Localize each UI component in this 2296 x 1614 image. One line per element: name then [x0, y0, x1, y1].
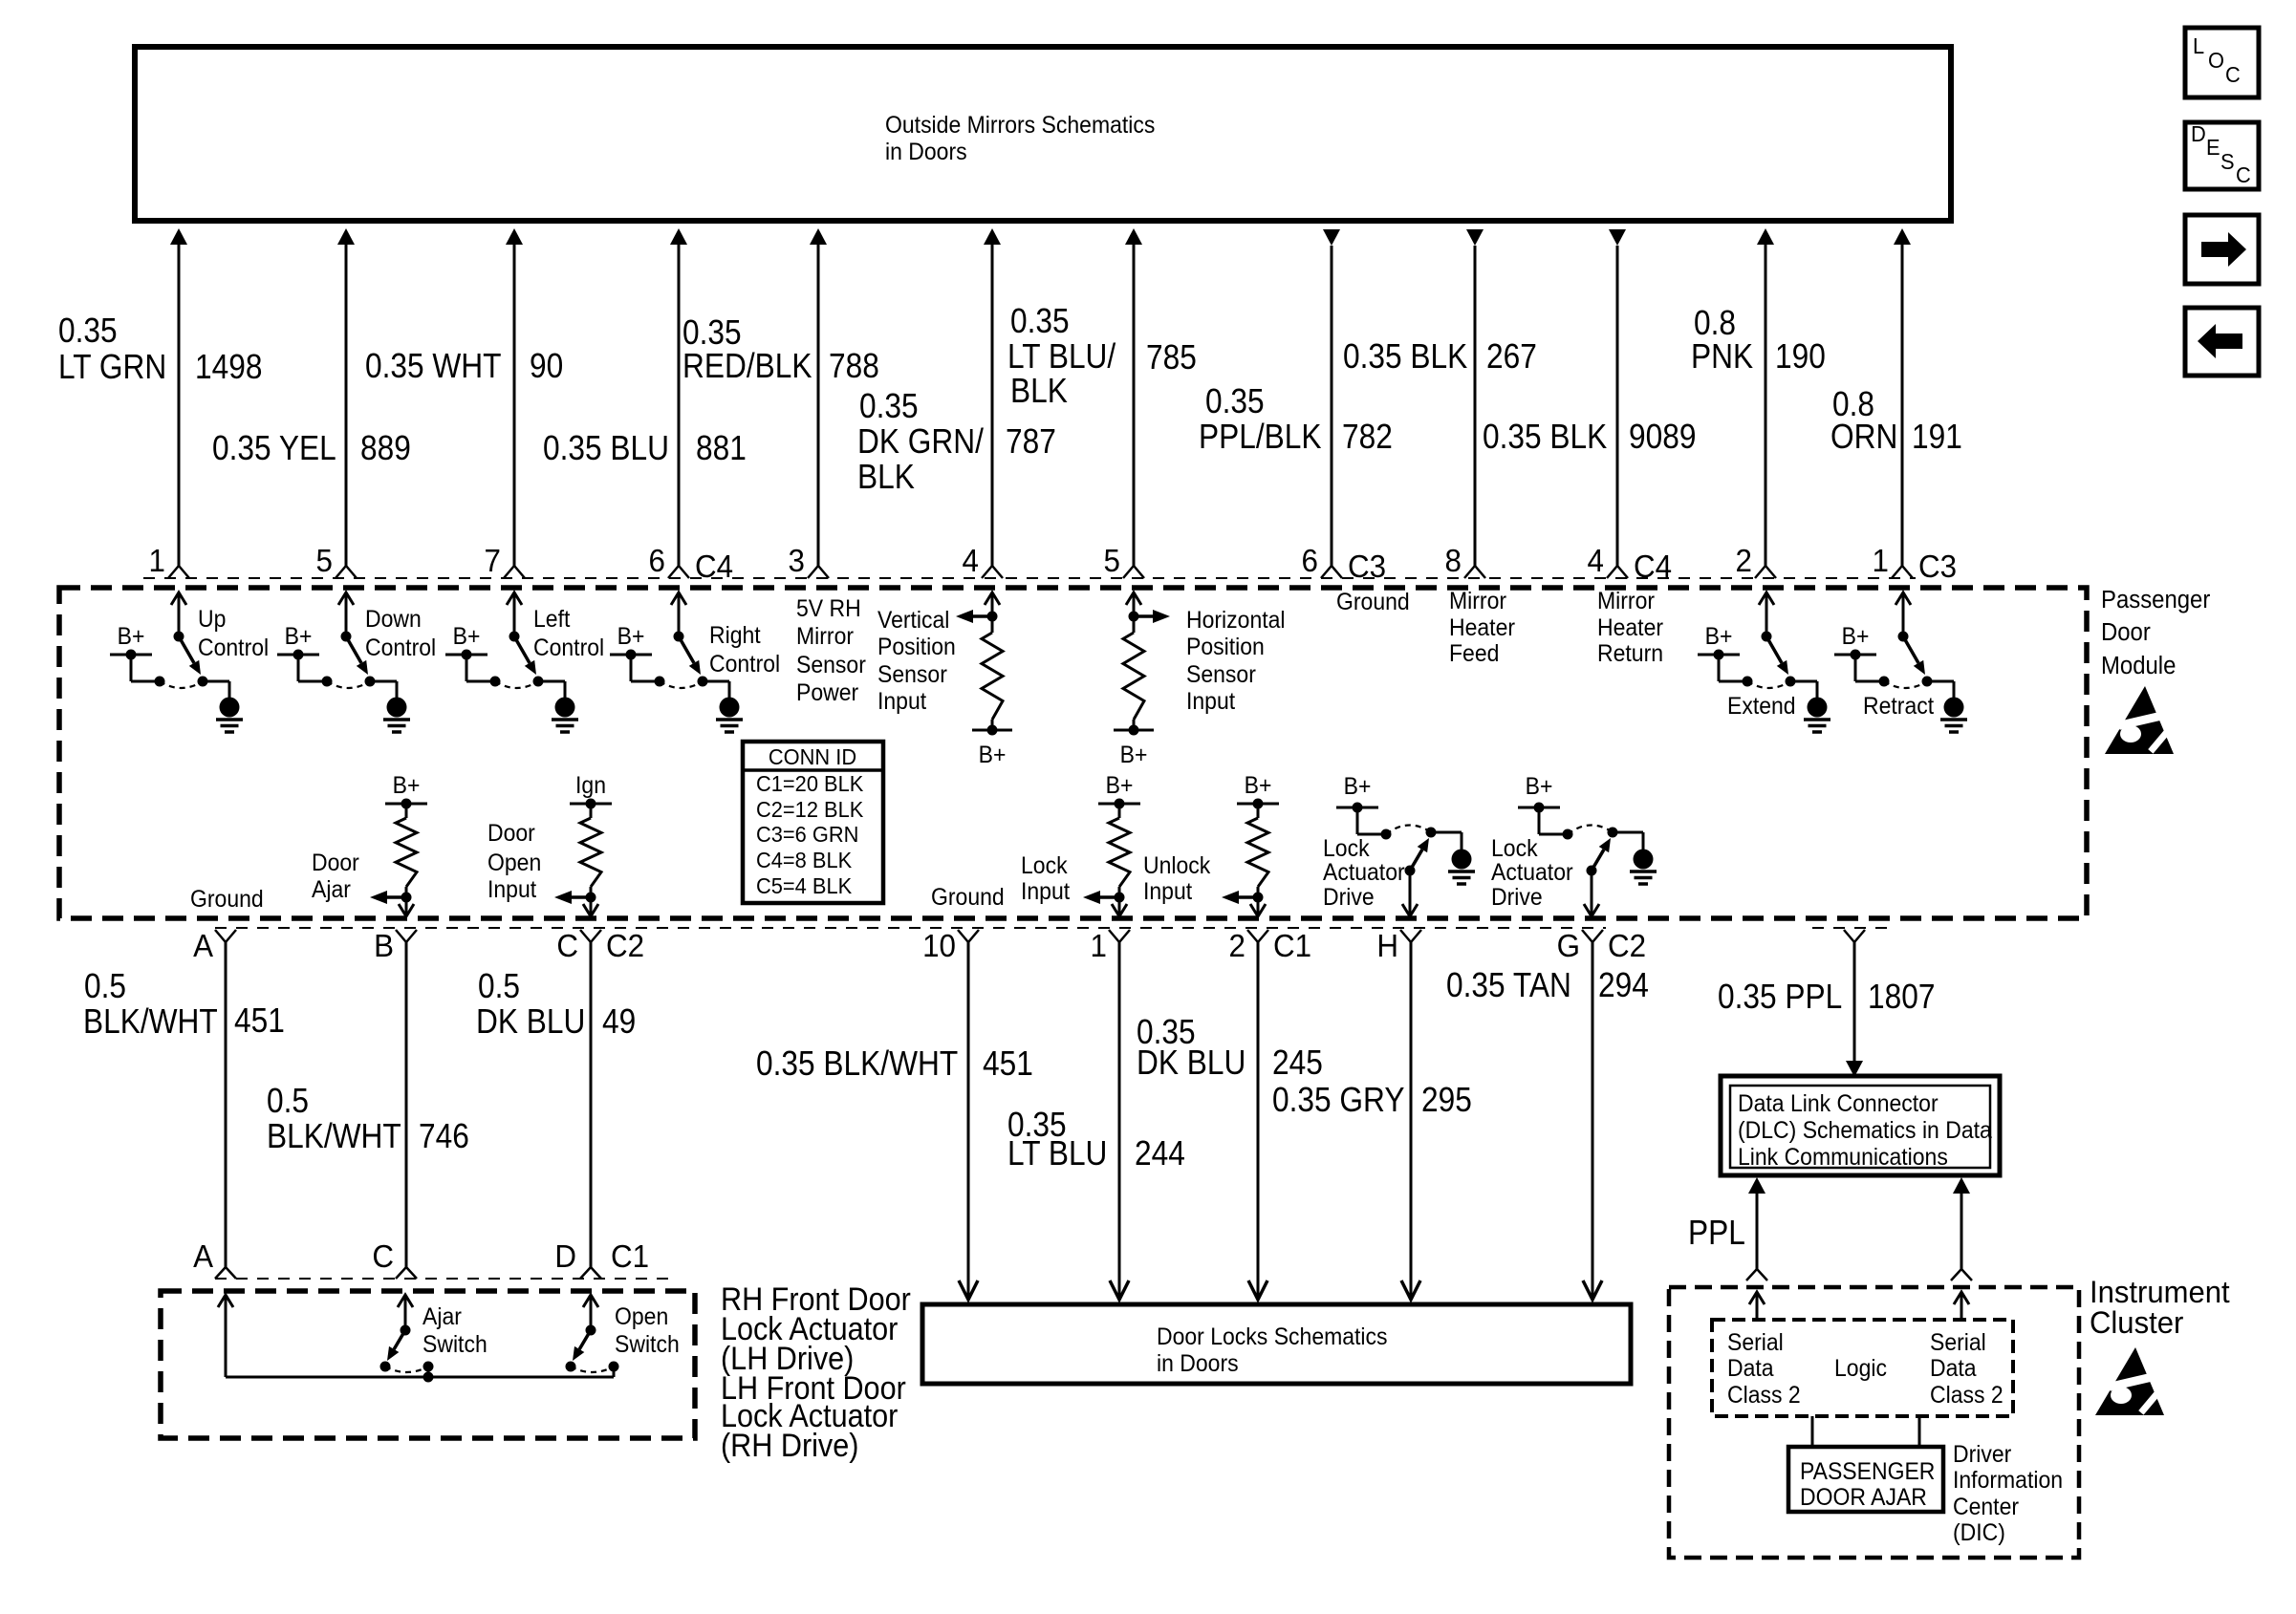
svg-text:0.5: 0.5 [84, 967, 126, 1005]
svg-text:1: 1 [149, 543, 165, 578]
label 0.35 GRY 295 [1272, 1081, 1472, 1119]
svg-text:BLK: BLK [857, 458, 915, 496]
label 0.5 DK BLU 49 [476, 967, 636, 1041]
switch Extend [1698, 592, 1830, 732]
svg-text:Sensor: Sensor [1186, 661, 1256, 688]
svg-text:Ajar: Ajar [312, 876, 351, 903]
svg-text:Mirror: Mirror [1597, 588, 1655, 614]
svg-text:LT GRN: LT GRN [58, 348, 166, 386]
svg-text:5: 5 [316, 543, 333, 578]
label 0.35 YEL 889 [212, 429, 411, 467]
svg-text:0.5: 0.5 [267, 1082, 309, 1120]
wire logic to passenger door ajar (right) [1918, 1416, 1921, 1447]
svg-text:889: 889 [360, 429, 411, 467]
svg-text:Open: Open [487, 850, 541, 876]
svg-text:Door: Door [2101, 618, 2151, 646]
svg-text:Serial: Serial [1930, 1329, 1986, 1356]
svg-text:in Doors: in Doors [885, 139, 967, 165]
svg-text:0.35 BLK/WHT: 0.35 BLK/WHT [756, 1044, 958, 1083]
connector line C4/C3 (thin dashed) [143, 577, 1916, 579]
svg-text:451: 451 [983, 1044, 1033, 1083]
module pin 10 [958, 930, 979, 942]
svg-text:B+: B+ [393, 772, 421, 799]
svg-text:0.35 YEL: 0.35 YEL [212, 429, 336, 467]
svg-text:2: 2 [1229, 928, 1245, 963]
svg-text:Ground: Ground [190, 886, 264, 913]
svg-text:788: 788 [829, 347, 879, 385]
label 5V RH Mirror Sensor Power [796, 595, 866, 706]
svg-text:B+: B+ [1120, 742, 1148, 768]
svg-text:H: H [1376, 928, 1398, 963]
svg-text:49: 49 [602, 1002, 636, 1041]
svg-text:B+: B+ [453, 623, 481, 650]
svg-text:451: 451 [234, 1001, 285, 1040]
wire to Outside Mirrors box, pin 8 [1464, 229, 1485, 578]
svg-text:C3: C3 [1918, 549, 1957, 584]
svg-text:0.35: 0.35 [1010, 302, 1070, 340]
horizontal position sensor (resistor to B+) [1114, 592, 1170, 768]
vertical position sensor (resistor to B+) [956, 592, 1012, 768]
ajar switch [380, 1295, 434, 1383]
label 0.35 RED/BLK 788 [682, 313, 879, 385]
svg-text:PNK: PNK [1691, 337, 1753, 376]
svg-text:(DLC) Schematics in Data: (DLC) Schematics in Data [1738, 1117, 1992, 1144]
lock input resistor (B+) [1083, 772, 1140, 916]
svg-text:245: 245 [1272, 1044, 1323, 1082]
module pin C C2 [580, 930, 601, 942]
label 0.35 BLK 267 [1343, 337, 1537, 376]
svg-text:785: 785 [1146, 338, 1197, 377]
label 0.35 DK GRN/BLK 787 [857, 387, 1056, 496]
svg-text:0.35 BLU: 0.35 BLU [543, 429, 669, 467]
wire to Outside Mirrors box, pin 7 [504, 228, 525, 578]
svg-text:Ground: Ground [931, 884, 1005, 911]
label PASSENGER DOOR AJAR [1800, 1458, 1935, 1511]
svg-text:Control: Control [709, 651, 780, 678]
svg-text:Position: Position [1186, 634, 1265, 660]
svg-text:1: 1 [1873, 543, 1889, 578]
box Door Locks Schematics in Doors [922, 1304, 1631, 1384]
svg-text:782: 782 [1342, 418, 1393, 456]
module pin H [1400, 930, 1421, 942]
RH/LH Front Door Lock Actuator (dashed box) [161, 1291, 695, 1438]
svg-text:Driver: Driver [1953, 1441, 2011, 1468]
svg-text:Class 2: Class 2 [1727, 1382, 1801, 1409]
svg-text:6: 6 [1302, 543, 1318, 578]
svg-text:Door: Door [312, 850, 359, 876]
svg-text:294: 294 [1598, 966, 1649, 1004]
svg-text:Lock: Lock [1491, 835, 1539, 862]
svg-text:190: 190 [1775, 337, 1826, 376]
button back-arrow [2185, 308, 2259, 376]
svg-text:C2: C2 [606, 928, 644, 963]
svg-text:Passenger: Passenger [2101, 586, 2210, 613]
svg-text:881: 881 [696, 429, 747, 467]
label 0.35 BLK/WHT 451 (door locks) [756, 1044, 1033, 1083]
svg-text:D: D [554, 1238, 576, 1274]
svg-text:0.35 PPL: 0.35 PPL [1718, 978, 1842, 1016]
svg-text:Mirror: Mirror [796, 623, 854, 650]
svg-text:Class 2: Class 2 [1930, 1382, 2004, 1409]
svg-text:B+: B+ [1526, 773, 1553, 800]
wire circuit 1807 (0.35 PPL) [1846, 942, 1863, 1077]
wire logic to passenger door ajar (left) [1811, 1416, 1814, 1447]
label 0.5 BLK/WHT 451 [83, 967, 285, 1041]
wire to Outside Mirrors box, pin 6 C4 [668, 228, 689, 578]
svg-text:Sensor: Sensor [796, 652, 866, 678]
svg-text:0.35 WHT: 0.35 WHT [365, 347, 502, 385]
svg-text:Ajar: Ajar [422, 1303, 462, 1330]
svg-text:1498: 1498 [195, 348, 262, 386]
ESD sensitivity symbol [2105, 686, 2179, 754]
svg-text:0.5: 0.5 [478, 967, 520, 1005]
wire to Outside Mirrors box, pin 1 [168, 228, 189, 578]
svg-text:C: C [2236, 162, 2251, 187]
module bottom connector line (thin dashed) [215, 927, 1606, 929]
svg-text:0.35 TAN: 0.35 TAN [1446, 966, 1571, 1004]
svg-text:90: 90 [530, 347, 563, 385]
label 0.35 PPL 1807 [1718, 978, 1935, 1016]
svg-text:CONN ID: CONN ID [769, 744, 856, 769]
svg-text:0.35: 0.35 [58, 312, 118, 350]
svg-text:0.35: 0.35 [1205, 382, 1265, 420]
svg-text:3: 3 [789, 543, 805, 578]
svg-text:PPL/BLK: PPL/BLK [1199, 418, 1322, 456]
svg-text:0.35 GRY: 0.35 GRY [1272, 1081, 1404, 1119]
wire to Outside Mirrors box, pin 5 [336, 228, 357, 578]
svg-text:A: A [193, 1238, 213, 1274]
svg-text:Input: Input [1186, 688, 1235, 715]
svg-text:C1=20 BLK: C1=20 BLK [756, 771, 863, 796]
wire down to Door Locks box at x=1666 [1583, 942, 1602, 1300]
svg-text:B+: B+ [1344, 773, 1372, 800]
svg-text:C3=6 GRN: C3=6 GRN [756, 822, 858, 847]
label Horizontal Position Sensor Input [1186, 607, 1286, 715]
svg-text:8: 8 [1445, 543, 1462, 578]
svg-text:Vertical: Vertical [877, 607, 949, 634]
wire to Outside Mirrors box, pin 5 [1123, 228, 1144, 578]
svg-text:C5=4 BLK: C5=4 BLK [756, 873, 852, 898]
wire down to Door Locks box at x=1013 [959, 942, 978, 1300]
module pin 2 C1 [1247, 930, 1268, 942]
svg-text:244: 244 [1135, 1134, 1185, 1173]
svg-text:C: C [556, 928, 578, 963]
serial data wire left (PPL) [1746, 1177, 1767, 1280]
switch Right Control [610, 592, 743, 732]
switch Down Control [277, 592, 410, 732]
label 0.8 PNK 190 [1691, 304, 1826, 376]
label 0.35 WHT 90 [365, 347, 563, 385]
svg-text:DK BLU: DK BLU [476, 1002, 585, 1041]
svg-text:Return: Return [1597, 640, 1663, 667]
svg-text:LT BLU: LT BLU [1007, 1134, 1107, 1173]
label 0.35 TAN 294 [1446, 966, 1649, 1004]
svg-text:Unlock: Unlock [1143, 852, 1211, 879]
label 0.35 LT GRN 1498 [58, 312, 262, 386]
svg-text:C1: C1 [611, 1238, 649, 1274]
label Right Control [709, 622, 780, 678]
svg-text:Link Communications: Link Communications [1738, 1144, 1948, 1171]
svg-text:Feed: Feed [1449, 640, 1499, 667]
svg-text:DK BLU: DK BLU [1137, 1044, 1245, 1082]
svg-text:ORN: ORN [1830, 418, 1897, 456]
svg-text:D: D [2191, 121, 2206, 146]
svg-text:746: 746 [419, 1117, 469, 1155]
module pin G C2 [1582, 930, 1603, 942]
label Serial Data Class 2 (left) [1727, 1329, 1801, 1409]
svg-text:Outside Mirrors Schematics: Outside Mirrors Schematics [885, 112, 1155, 139]
bottom connector line (thin dashed) [215, 1278, 669, 1280]
label Down Control [365, 606, 436, 661]
svg-text:4: 4 [963, 543, 979, 578]
svg-text:BLK: BLK [1010, 372, 1068, 410]
svg-text:O: O [2208, 48, 2224, 73]
switch Left Control [445, 592, 578, 732]
svg-text:B+: B+ [118, 623, 145, 650]
Instrument Cluster (dashed box) [1669, 1287, 2079, 1558]
wire to Outside Mirrors box, pin 6 C3 [1321, 229, 1342, 578]
label Mirror Heater Feed [1449, 588, 1515, 667]
svg-text:Horizontal: Horizontal [1186, 607, 1286, 634]
unlock input resistor (B+) [1222, 772, 1279, 916]
door open input resistor (Ign) [554, 772, 612, 916]
svg-text:Lock: Lock [1323, 835, 1371, 862]
svg-text:DOOR AJAR: DOOR AJAR [1800, 1484, 1927, 1511]
svg-text:L: L [2193, 33, 2204, 58]
module pin (PPL) [1844, 930, 1865, 942]
wire pin A to common bus [218, 1295, 233, 1377]
label 0.35 DK BLU 245 [1137, 1013, 1323, 1082]
svg-text:Heater: Heater [1597, 614, 1663, 641]
button DESC [2185, 121, 2259, 189]
svg-text:10: 10 [922, 928, 956, 963]
label Door Ajar [312, 850, 359, 903]
label 0.35 BLK 9089 [1483, 418, 1696, 456]
label Passenger Door Module [2101, 586, 2210, 679]
svg-text:Power: Power [796, 679, 858, 706]
svg-text:Serial: Serial [1727, 1329, 1784, 1356]
svg-text:Retract: Retract [1863, 693, 1934, 720]
bottom connector forks A/C/D [215, 1267, 601, 1279]
svg-text:Up: Up [198, 606, 226, 633]
svg-text:C1: C1 [1273, 928, 1311, 963]
svg-text:191: 191 [1912, 418, 1962, 456]
svg-text:1: 1 [1091, 928, 1107, 963]
svg-text:RED/BLK: RED/BLK [682, 347, 812, 385]
svg-text:Ign: Ign [575, 772, 606, 799]
svg-text:7: 7 [485, 543, 501, 578]
common bus wire [226, 1376, 614, 1379]
svg-text:C2: C2 [1608, 928, 1646, 963]
label 0.8 ORN 191 [1830, 385, 1962, 456]
lock actuator drive switch (pin H) [1336, 773, 1475, 916]
module pin B [396, 930, 417, 942]
svg-text:0.35 BLK: 0.35 BLK [1483, 418, 1608, 456]
label 0.35 LT BLU/BLK 785 [1007, 302, 1197, 410]
svg-text:2: 2 [1736, 543, 1752, 578]
svg-text:5V RH: 5V RH [796, 595, 861, 622]
label Outside Mirrors Schematics in Doors [885, 112, 1155, 165]
logic block (dashed box) [1712, 1320, 2013, 1416]
svg-text:G: G [1557, 928, 1580, 963]
module bottom connector line at PPL pin [1812, 927, 1896, 929]
svg-text:0.35: 0.35 [859, 387, 919, 425]
label Data Link Connector (DLC) Schematics in Data Link Communications [1738, 1090, 1992, 1171]
wire to Outside Mirrors box, pin 3 [808, 228, 829, 578]
svg-text:Door: Door [487, 820, 535, 847]
label Left Control [533, 606, 604, 661]
wire to Outside Mirrors box, pin 2 [1755, 228, 1776, 578]
svg-text:Lock: Lock [1021, 852, 1069, 879]
label 0.35 PPL/BLK 782 [1199, 382, 1393, 456]
wire circuit 451 down to door lock actuator [225, 942, 227, 1267]
svg-text:0.35 BLK: 0.35 BLK [1343, 337, 1468, 376]
svg-text:Sensor: Sensor [877, 661, 947, 688]
label Vertical Position Sensor Input [877, 607, 956, 715]
svg-text:B+: B+ [1842, 623, 1870, 650]
svg-text:PPL: PPL [1688, 1214, 1745, 1252]
lock actuator drive switch (pin G) [1518, 773, 1657, 916]
label Lock Input [1021, 852, 1070, 905]
svg-text:Position: Position [877, 634, 956, 660]
CONN ID table [743, 742, 883, 903]
svg-text:Switch: Switch [422, 1331, 487, 1358]
svg-text:Door Locks Schematics: Door Locks Schematics [1157, 1323, 1388, 1350]
svg-text:Center: Center [1953, 1494, 2019, 1520]
svg-text:in Doors: in Doors [1157, 1350, 1239, 1377]
svg-text:Actuator: Actuator [1323, 859, 1405, 886]
svg-text:267: 267 [1486, 337, 1537, 376]
label Up Control [198, 606, 269, 661]
svg-text:B+: B+ [617, 623, 645, 650]
button LOC [2185, 28, 2259, 97]
svg-text:4: 4 [1588, 543, 1604, 578]
wire to Outside Mirrors box, pin 4 C4 [1607, 229, 1628, 578]
wire to Outside Mirrors box, pin 4 [982, 228, 1003, 578]
svg-text:E: E [2206, 135, 2220, 160]
module pin 1 [1109, 930, 1130, 942]
wire down to Door Locks box at x=1316 [1248, 942, 1267, 1300]
svg-text:787: 787 [1006, 422, 1056, 461]
serial data wire right [1951, 1177, 1972, 1280]
serial data input arrow right [1954, 1292, 1969, 1320]
label Lock Actuator Drive (H) [1323, 835, 1405, 911]
svg-text:Input: Input [487, 876, 536, 903]
label 0.35 LT BLU 244 [1007, 1106, 1185, 1173]
label Lock Actuator Drive (G) [1491, 835, 1573, 911]
label Serial Data Class 2 (right) [1930, 1329, 2004, 1409]
switch Up Control [110, 592, 243, 732]
svg-text:1807: 1807 [1868, 978, 1935, 1016]
svg-text:Extend: Extend [1727, 693, 1796, 720]
wire circuit 746 down to door lock actuator [405, 942, 408, 1267]
svg-text:Ground: Ground [1336, 589, 1410, 615]
svg-text:C: C [372, 1238, 394, 1274]
ESD sensitivity symbol (instrument cluster) [2095, 1347, 2170, 1415]
module pin A [215, 930, 236, 942]
svg-text:BLK/WHT: BLK/WHT [83, 1002, 218, 1041]
svg-text:Actuator: Actuator [1491, 859, 1573, 886]
svg-text:DK GRN/: DK GRN/ [857, 422, 984, 461]
svg-text:Control: Control [198, 635, 269, 661]
button next-arrow [2185, 215, 2259, 284]
svg-text:(DIC): (DIC) [1953, 1519, 2005, 1546]
door ajar output resistor (B+) [370, 772, 427, 916]
label 0.35 BLU 881 [543, 429, 747, 467]
svg-text:Mirror: Mirror [1449, 588, 1506, 614]
svg-text:Right: Right [709, 622, 761, 649]
svg-text:Down: Down [365, 606, 422, 633]
wire down to Door Locks box at x=1476 [1401, 942, 1420, 1300]
svg-text:Cluster: Cluster [2090, 1305, 2183, 1341]
box Data Link Connector (DLC) [1721, 1076, 2000, 1175]
label Driver Information Center (DIC) [1953, 1441, 2063, 1546]
svg-text:Heater: Heater [1449, 614, 1515, 641]
svg-text:B+: B+ [1106, 772, 1134, 799]
svg-text:Drive: Drive [1491, 884, 1543, 911]
svg-text:B+: B+ [1245, 772, 1272, 799]
svg-text:S: S [2220, 149, 2235, 174]
open switch [566, 1295, 619, 1377]
label 0.5 BLK/WHT 746 [267, 1082, 469, 1155]
label Ajar Switch [422, 1303, 487, 1358]
box: Outside Mirrors Schematics in Doors [135, 47, 1951, 221]
wire circuit 49 down to door lock actuator [590, 942, 593, 1267]
svg-text:9089: 9089 [1629, 418, 1696, 456]
serial data input arrow left [1749, 1292, 1765, 1320]
wire down to Door Locks box at x=1171 [1110, 942, 1129, 1300]
svg-text:Input: Input [877, 688, 926, 715]
svg-text:C2=12 BLK: C2=12 BLK [756, 797, 863, 822]
svg-text:Module: Module [2101, 652, 2176, 679]
svg-text:Drive: Drive [1323, 884, 1375, 911]
svg-text:C: C [2225, 62, 2241, 87]
svg-text:LT BLU/: LT BLU/ [1007, 337, 1116, 376]
svg-text:Open: Open [615, 1303, 668, 1330]
svg-text:B+: B+ [979, 742, 1007, 768]
svg-text:B+: B+ [285, 623, 313, 650]
svg-text:5: 5 [1104, 543, 1120, 578]
svg-text:A: A [193, 928, 213, 963]
label Open Switch [615, 1303, 680, 1358]
svg-text:Data: Data [1930, 1355, 1977, 1382]
label Instrument Cluster [2090, 1275, 2230, 1341]
svg-text:Control: Control [365, 635, 436, 661]
svg-text:Information: Information [1953, 1467, 2063, 1494]
svg-text:BLK/WHT: BLK/WHT [267, 1117, 401, 1155]
svg-text:295: 295 [1421, 1081, 1472, 1119]
label RH Front Door Lock Actuator (LH Drive) / LH Front Door Lock Actuator (RH Drive) [721, 1281, 911, 1464]
svg-text:Input: Input [1021, 878, 1070, 905]
svg-text:Left: Left [533, 606, 571, 633]
svg-text:Control: Control [533, 635, 604, 661]
svg-text:Data Link Connector: Data Link Connector [1738, 1090, 1939, 1117]
switch Retract [1834, 592, 1967, 732]
wire to Outside Mirrors box, pin 1 C3 [1892, 228, 1913, 578]
label Mirror Heater Return [1597, 588, 1663, 667]
label Door Locks Schematics in Doors [1157, 1323, 1388, 1377]
svg-text:Input: Input [1143, 878, 1192, 905]
svg-text:Data: Data [1727, 1355, 1774, 1382]
svg-text:C4=8 BLK: C4=8 BLK [756, 848, 852, 872]
label Door Open Input [487, 820, 541, 903]
svg-text:B: B [374, 928, 394, 963]
svg-text:(RH Drive): (RH Drive) [721, 1428, 858, 1464]
svg-text:PASSENGER: PASSENGER [1800, 1458, 1935, 1485]
Passenger Door Module (dashed box) [59, 588, 2087, 918]
svg-text:Logic: Logic [1834, 1355, 1887, 1382]
box PASSENGER DOOR AJAR [1788, 1447, 1943, 1512]
